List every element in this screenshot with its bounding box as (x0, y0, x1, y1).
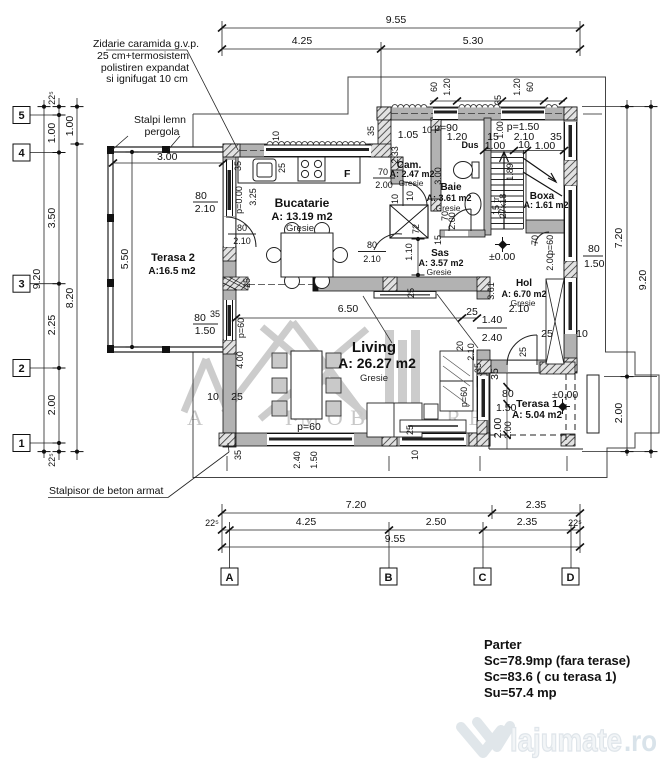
svg-text:22⁵: 22⁵ (47, 91, 57, 105)
svg-text:35: 35 (366, 126, 376, 136)
svg-text:si ignifugat 10 cm: si ignifugat 10 cm (106, 73, 188, 85)
svg-text:A: 13.19 m2: A: 13.19 m2 (271, 211, 332, 223)
svg-text:1.50: 1.50 (584, 258, 605, 270)
svg-text:Hol: Hol (516, 278, 532, 289)
svg-text:25: 25 (406, 288, 416, 298)
svg-text:2.00: 2.00 (545, 253, 555, 271)
svg-text:p=0.00: p=0.00 (234, 186, 244, 214)
svg-text:80: 80 (502, 388, 514, 400)
svg-text:1: 1 (18, 438, 24, 450)
svg-text:2.33: 2.33 (390, 146, 400, 164)
svg-text:p=60: p=60 (545, 235, 555, 255)
svg-text:5.30: 5.30 (463, 35, 484, 47)
svg-text:3.00: 3.00 (433, 167, 443, 185)
svg-text:p=60: p=60 (297, 421, 321, 433)
svg-text:10: 10 (405, 191, 415, 201)
svg-text:20: 20 (455, 341, 465, 351)
svg-text:2.10: 2.10 (363, 254, 381, 264)
svg-text:C: C (479, 572, 487, 584)
svg-text:1.40: 1.40 (482, 314, 503, 326)
svg-text:A: 26.27 m2: A: 26.27 m2 (338, 355, 416, 371)
svg-text:22⁵: 22⁵ (47, 453, 57, 467)
svg-text:2.10: 2.10 (466, 343, 476, 361)
svg-text:1.20: 1.20 (447, 131, 468, 143)
svg-text:A: 3.61 m2: A: 3.61 m2 (426, 193, 471, 203)
svg-text:35: 35 (233, 161, 243, 171)
svg-text:80: 80 (194, 312, 206, 324)
svg-text:25: 25 (518, 347, 528, 357)
svg-text:lajumate: lajumate (510, 722, 622, 758)
svg-text:4.00: 4.00 (235, 351, 245, 369)
svg-text:70: 70 (378, 167, 388, 177)
svg-text:±0.00: ±0.00 (552, 389, 578, 401)
svg-text:Baie: Baie (440, 182, 462, 193)
svg-text:p=60: p=60 (236, 318, 246, 338)
svg-text:Stalpi lemn: Stalpi lemn (134, 114, 186, 126)
svg-text:25: 25 (231, 391, 243, 403)
svg-text:B: B (385, 572, 393, 584)
svg-text:7.20: 7.20 (613, 228, 625, 249)
svg-text:A: A (187, 405, 203, 430)
svg-text:10: 10 (576, 328, 588, 340)
svg-text:2.50: 2.50 (426, 516, 447, 528)
svg-text:2.00: 2.00 (46, 395, 58, 416)
svg-text:3.61: 3.61 (486, 282, 496, 300)
svg-text:10: 10 (207, 391, 219, 403)
svg-text:1.89: 1.89 (505, 163, 515, 181)
svg-text:7.20: 7.20 (346, 499, 367, 511)
svg-text:Gresie: Gresie (360, 373, 388, 384)
svg-text:Su=57.4 mp: Su=57.4 mp (484, 685, 557, 700)
svg-text:35: 35 (473, 363, 483, 373)
svg-text:2.00: 2.00 (447, 212, 457, 230)
svg-text:1.00: 1.00 (64, 116, 76, 137)
svg-text:35: 35 (233, 450, 243, 460)
svg-text:A: A (226, 572, 234, 584)
svg-text:80: 80 (237, 223, 247, 233)
svg-text:25: 25 (242, 278, 252, 288)
svg-text:Zidarie caramida g.v.p.: Zidarie caramida g.v.p. (93, 38, 199, 50)
svg-text:D: D (567, 572, 575, 584)
svg-text:60: 60 (525, 82, 535, 92)
svg-text:pergola: pergola (144, 126, 179, 138)
svg-text:4: 4 (18, 148, 25, 160)
svg-text:15: 15 (433, 235, 443, 245)
svg-text:35: 35 (210, 309, 220, 319)
svg-text:A:16.5 m2: A:16.5 m2 (148, 266, 196, 277)
svg-text:3.00: 3.00 (157, 151, 178, 163)
svg-text:2.35: 2.35 (517, 516, 538, 528)
svg-text:70: 70 (530, 235, 540, 245)
svg-text:2.00: 2.00 (375, 180, 393, 190)
svg-text:9.55: 9.55 (385, 533, 406, 545)
svg-text:1.50: 1.50 (195, 325, 216, 337)
svg-text:5.50: 5.50 (119, 249, 131, 270)
svg-text:2.10: 2.10 (195, 203, 216, 215)
svg-text:10: 10 (271, 131, 281, 141)
svg-text:2.00: 2.00 (613, 403, 625, 424)
svg-text:10: 10 (422, 125, 432, 135)
svg-text:3: 3 (18, 279, 24, 291)
svg-text:Terasa 2: Terasa 2 (151, 252, 195, 264)
svg-text:2.35: 2.35 (526, 499, 547, 511)
svg-text:2.40: 2.40 (482, 332, 503, 344)
svg-text:1.10: 1.10 (404, 243, 414, 261)
svg-text:35: 35 (489, 368, 501, 380)
svg-text:9.20: 9.20 (31, 269, 43, 290)
svg-text:80: 80 (195, 190, 207, 202)
svg-text:2.10: 2.10 (509, 303, 530, 315)
svg-text:25: 25 (405, 425, 415, 435)
svg-text:1.00: 1.00 (46, 123, 58, 144)
svg-text:±0.00: ±0.00 (489, 251, 515, 263)
svg-text:A: 5.04 m2: A: 5.04 m2 (512, 410, 562, 421)
svg-text:22⁵: 22⁵ (205, 518, 219, 528)
svg-text:1.50: 1.50 (309, 451, 319, 469)
svg-text:8.20: 8.20 (64, 288, 76, 309)
svg-text:Stalpisor de beton armat: Stalpisor de beton armat (49, 485, 163, 497)
svg-text:80: 80 (367, 240, 377, 250)
svg-text:60: 60 (429, 82, 439, 92)
svg-text:25: 25 (541, 328, 553, 340)
svg-text:Gresie: Gresie (398, 178, 423, 188)
svg-text:27x18: 27x18 (498, 194, 508, 219)
svg-text:2.00: 2.00 (503, 421, 513, 439)
svg-text:.ro: .ro (624, 725, 657, 758)
svg-text:9.20: 9.20 (637, 270, 649, 291)
svg-text:4.25: 4.25 (296, 516, 317, 528)
svg-text:Living: Living (352, 339, 396, 356)
svg-text:25: 25 (466, 306, 478, 318)
svg-text:2.40: 2.40 (292, 451, 302, 469)
svg-text:Gresie: Gresie (286, 223, 314, 234)
svg-text:2.25: 2.25 (46, 315, 58, 336)
svg-text:Sc=83.6 ( cu terasa 1): Sc=83.6 ( cu terasa 1) (484, 669, 617, 684)
svg-text:4.25: 4.25 (292, 35, 313, 47)
svg-text:3.25: 3.25 (248, 188, 258, 206)
svg-text:25 cm+termosistem: 25 cm+termosistem (97, 50, 189, 62)
svg-text:5: 5 (18, 110, 24, 122)
svg-text:9.55: 9.55 (386, 14, 407, 26)
svg-text:22⁵: 22⁵ (568, 518, 582, 528)
svg-text:72: 72 (411, 224, 421, 234)
svg-text:25: 25 (277, 163, 287, 173)
svg-text:Parter: Parter (484, 637, 522, 652)
svg-text:80: 80 (588, 243, 600, 255)
svg-text:2.10: 2.10 (233, 236, 251, 246)
svg-text:1.20: 1.20 (442, 78, 452, 96)
svg-text:p=60: p=60 (459, 387, 469, 407)
svg-text:10: 10 (410, 450, 420, 460)
svg-text:3.50: 3.50 (46, 208, 58, 229)
svg-text:Sc=78.9mp (fara terase): Sc=78.9mp (fara terase) (484, 653, 630, 668)
svg-text:2: 2 (18, 363, 24, 375)
svg-text:F: F (344, 168, 351, 180)
svg-text:Gresie: Gresie (426, 267, 451, 277)
svg-text:6.50: 6.50 (338, 303, 359, 315)
svg-text:10: 10 (390, 194, 400, 204)
svg-text:A: 1.61 m2: A: 1.61 m2 (523, 200, 568, 210)
svg-text:Bucatarie: Bucatarie (275, 196, 330, 210)
svg-text:1.05: 1.05 (398, 129, 419, 141)
svg-text:1.20: 1.20 (512, 78, 522, 96)
